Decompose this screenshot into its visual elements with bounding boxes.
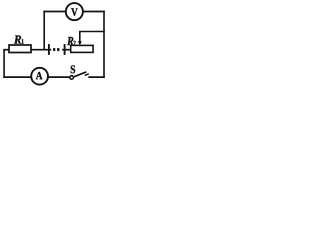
rheostat R2 slider arrowhead — [78, 41, 82, 45]
wire: bottom middle segment — [48, 76, 70, 78]
battery: right long plate — [64, 44, 66, 55]
rheostat R2 slider arrow stem — [79, 32, 81, 43]
wire: R1 to battery — [31, 49, 49, 51]
wire: bottom left segment — [3, 76, 31, 78]
wire: slider to right vertical — [79, 31, 105, 33]
switch S label — [71, 65, 75, 73]
switch S lever — [74, 72, 87, 77]
wire: right vertical — [103, 11, 105, 78]
wire: bottom right segment — [88, 76, 105, 78]
wire: stub right of left plate — [49, 49, 51, 51]
resistor R1 box — [9, 45, 31, 53]
battery: left short plate — [53, 48, 55, 51]
resistor R1 label — [14, 35, 21, 43]
rheostat R2 box — [71, 45, 93, 52]
switch S contact tick — [85, 74, 89, 76]
wire: left vertical — [3, 50, 5, 78]
battery: right short plate — [57, 48, 59, 51]
wire: stub left of R1 — [3, 49, 9, 51]
wire: battery to rheostat — [65, 49, 71, 51]
battery: left long plate — [48, 44, 50, 55]
switch S pivot — [70, 76, 74, 80]
ammeter A — [31, 68, 48, 85]
wire: top left segment — [43, 11, 66, 13]
wire: stub left of right plate — [62, 49, 65, 51]
rheostat R2 label — [67, 37, 73, 45]
wire: voltmeter branch vertical — [43, 11, 45, 51]
wire: top right segment — [83, 11, 105, 13]
voltmeter V — [66, 3, 83, 20]
